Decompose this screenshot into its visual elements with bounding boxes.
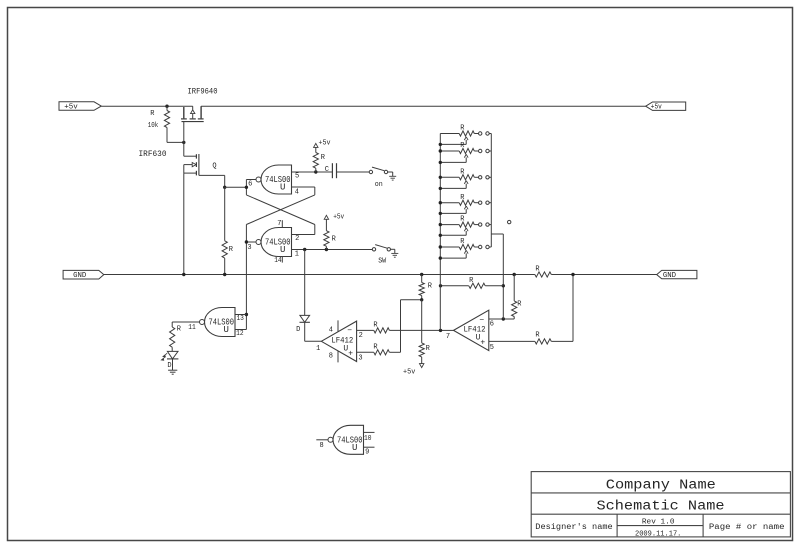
resistor R 10k bbox=[166, 106, 168, 110]
svg-text:D: D bbox=[296, 326, 300, 334]
diode D bbox=[300, 315, 310, 322]
trimmer RV2 wiper bbox=[465, 157, 467, 162]
resistor R (LED) bbox=[171, 322, 173, 327]
GND rail wire bbox=[104, 274, 535, 276]
svg-text:−: − bbox=[479, 316, 484, 325]
trimmer RV4 wiper bbox=[465, 209, 467, 213]
resistor R (pin2 to opamp2 out) bbox=[374, 328, 390, 333]
svg-text:4: 4 bbox=[295, 189, 299, 197]
LED D bbox=[167, 351, 178, 359]
power +5v (pin1 pullup) bbox=[324, 215, 328, 219]
svg-text:3: 3 bbox=[358, 355, 362, 363]
svg-text:2009.11.17.: 2009.11.17. bbox=[635, 531, 681, 539]
wire diode to opamp1 output bbox=[304, 322, 306, 341]
svg-text:GND: GND bbox=[73, 272, 87, 280]
switch SW bbox=[372, 248, 375, 251]
svg-text:5: 5 bbox=[490, 344, 494, 352]
N-FET body arrow bbox=[184, 164, 192, 166]
node: +5v / R10k junction bbox=[165, 105, 168, 108]
svg-text:8: 8 bbox=[329, 352, 333, 360]
svg-text:10: 10 bbox=[364, 435, 372, 443]
power +5v (divider, pointing down) bbox=[420, 364, 424, 368]
svg-text:LF412: LF412 bbox=[331, 337, 353, 346]
power flag GND right bbox=[657, 270, 697, 278]
opamp1 power pin 4 bbox=[337, 320, 339, 331]
svg-text:U: U bbox=[280, 183, 285, 193]
opamp1 power pin 8 bbox=[337, 351, 339, 362]
svg-text:Page # or name: Page # or name bbox=[709, 522, 785, 532]
resistor R (divider upper, to GND rail) bbox=[420, 273, 423, 276]
svg-text:7: 7 bbox=[446, 333, 450, 341]
vertical bus opamp2 output / ladder-left bbox=[439, 134, 441, 331]
resistor R pull-up (pin1) bbox=[324, 231, 329, 247]
svg-text:+5v: +5v bbox=[403, 368, 415, 376]
svg-text:Rev 1.0: Rev 1.0 bbox=[642, 519, 675, 527]
svg-text:10k: 10k bbox=[148, 122, 159, 130]
wire pin 5 row bbox=[292, 171, 333, 173]
wire pin6 (-) row bbox=[489, 318, 514, 320]
svg-text:SW: SW bbox=[378, 258, 387, 266]
node pin6 bbox=[245, 180, 247, 195]
wire N-FET source to GND rail bbox=[183, 173, 185, 274]
pin 8 stub bbox=[316, 439, 328, 441]
svg-text:6: 6 bbox=[248, 181, 252, 189]
resistor R (pin3 to ref divider) bbox=[374, 350, 390, 355]
ground symbol (LED) bbox=[168, 369, 177, 371]
trimmer RV5 row bbox=[440, 224, 459, 226]
pin 6 output stub bbox=[246, 179, 256, 181]
svg-text:+: + bbox=[480, 339, 485, 348]
svg-text:Schematic Name: Schematic Name bbox=[597, 499, 725, 514]
svg-text:74LS00: 74LS00 bbox=[337, 436, 363, 446]
N-FET source contact bbox=[183, 165, 185, 174]
node: P-FET gate / N-FET drain junction bbox=[182, 141, 185, 144]
svg-text:9: 9 bbox=[365, 449, 369, 457]
svg-text:8: 8 bbox=[319, 442, 323, 450]
svg-text:+5v: +5v bbox=[651, 104, 662, 112]
gate U1C 74LS00 (LED driver) bbox=[205, 308, 236, 337]
N-FET channel dashes bbox=[195, 154, 197, 158]
power +5v (pin5 pullup) bbox=[314, 143, 318, 147]
node pin3 + tie-down wire bbox=[245, 225, 247, 330]
trimmer RV3 wiper bbox=[465, 184, 467, 189]
ladder right bus bbox=[490, 134, 492, 248]
cross-couple wire 3 to 4 bbox=[246, 195, 314, 225]
svg-text:4: 4 bbox=[329, 326, 333, 334]
trimmer RV4 row bbox=[440, 202, 459, 204]
resistor R pull-up (pin5) bbox=[313, 153, 318, 169]
wire latch to gate inputs 13/12 bbox=[245, 313, 248, 316]
svg-text:U: U bbox=[223, 325, 228, 335]
pin 3 output stub bbox=[246, 241, 256, 243]
stray contact circle bbox=[508, 220, 511, 223]
gate U1B 74LS00 (bottom latch gate) bbox=[261, 228, 292, 257]
svg-text:5: 5 bbox=[295, 172, 299, 180]
pin 11 output wire bbox=[172, 321, 199, 323]
svg-text:C: C bbox=[325, 166, 329, 174]
svg-text:+: + bbox=[348, 350, 353, 359]
svg-text:−: − bbox=[347, 327, 352, 336]
resistor R (divider lower, to +5v) bbox=[421, 300, 423, 343]
power pin 7 (up) bbox=[281, 220, 283, 227]
svg-text:14: 14 bbox=[274, 257, 282, 265]
trimmer RV6 wiper bbox=[465, 253, 467, 258]
svg-text:Company Name: Company Name bbox=[606, 479, 716, 494]
resistor R (in gnd rail, feedback to +input) bbox=[535, 272, 551, 277]
+5v rail wire bbox=[101, 105, 192, 107]
svg-text:1: 1 bbox=[316, 345, 320, 353]
svg-text:IRF630: IRF630 bbox=[139, 149, 167, 159]
resistor R (feedback opamp2) bbox=[441, 285, 469, 287]
svg-text:74LS00: 74LS00 bbox=[208, 318, 234, 328]
N-FET gate plate bbox=[198, 154, 200, 175]
vertical bus ladder-right to pin6 bbox=[502, 234, 504, 319]
wire pin1 node down to diode bbox=[304, 250, 306, 316]
trimmer RV1 row bbox=[440, 133, 459, 135]
wire N-FET gate to latch bbox=[199, 174, 225, 176]
svg-text:3: 3 bbox=[247, 244, 251, 252]
title block bbox=[531, 472, 790, 537]
svg-text:U: U bbox=[280, 245, 285, 255]
svg-text:13: 13 bbox=[236, 315, 244, 323]
svg-text:11: 11 bbox=[188, 324, 196, 332]
op-amp U2A LF412 bbox=[321, 321, 356, 361]
trimmer RV3 row bbox=[440, 176, 459, 178]
power flag +5v right bbox=[646, 102, 686, 110]
svg-text:2: 2 bbox=[295, 235, 299, 243]
svg-text:+5v: +5v bbox=[333, 213, 344, 221]
svg-text:7: 7 bbox=[277, 220, 281, 228]
trimmer RV1 wiper bbox=[465, 140, 467, 145]
wire pin3 (+) row bbox=[357, 351, 374, 353]
LED arrows bbox=[163, 353, 167, 356]
svg-text:D: D bbox=[167, 362, 171, 370]
svg-text:+5v: +5v bbox=[64, 104, 78, 112]
op-amp U2B LF412 bbox=[454, 310, 489, 350]
pin 9 stub bbox=[364, 446, 375, 448]
svg-text:74LS00: 74LS00 bbox=[265, 175, 291, 185]
wire pin5 (+) row bbox=[489, 340, 535, 342]
svg-text:Q: Q bbox=[212, 163, 216, 171]
wire pin 1 row bbox=[292, 249, 373, 251]
cross-couple wire 6 to 2 bbox=[246, 195, 314, 225]
svg-text:GND: GND bbox=[663, 272, 677, 280]
svg-text:74LS00: 74LS00 bbox=[265, 238, 291, 248]
power pin 14 (down) bbox=[281, 257, 283, 263]
svg-text:U: U bbox=[352, 443, 357, 453]
resistor R (pin6 to GND rail) bbox=[513, 273, 516, 276]
svg-text:2: 2 bbox=[359, 332, 363, 340]
gate U1D 74LS00 (unused) bbox=[333, 425, 364, 454]
trimmer RV5 wiper bbox=[465, 231, 467, 235]
wire C to switch bbox=[337, 171, 370, 173]
svg-text:1: 1 bbox=[295, 250, 299, 258]
wire R10k to gate node bbox=[167, 141, 184, 143]
svg-text:IRF9640: IRF9640 bbox=[188, 86, 218, 96]
wire pin2 (-) row bbox=[357, 329, 374, 331]
switch 'on' bbox=[369, 170, 372, 173]
resistor R (pin5 to GND) bbox=[535, 339, 551, 344]
svg-text:6: 6 bbox=[490, 321, 494, 329]
trimmer RV6 row bbox=[440, 246, 459, 248]
svg-text:12: 12 bbox=[236, 330, 244, 338]
wire N-FET drain lead bbox=[183, 142, 185, 156]
wire opamp2 output bbox=[441, 329, 454, 331]
resistor R (gate node to GND) bbox=[224, 187, 226, 241]
svg-text:+5v: +5v bbox=[319, 140, 331, 148]
svg-text:LF412: LF412 bbox=[464, 326, 486, 335]
power flag +5v left bbox=[59, 102, 101, 111]
pin 10 stub bbox=[364, 431, 375, 433]
power flag GND left bbox=[63, 270, 104, 279]
svg-text:on: on bbox=[375, 181, 383, 189]
wire P-FET gate lead bbox=[183, 122, 185, 143]
gate U1A 74LS00 (top latch gate) bbox=[261, 165, 292, 194]
svg-text:Designer's name: Designer's name bbox=[535, 522, 612, 532]
trimmer RV2 row bbox=[440, 150, 459, 152]
